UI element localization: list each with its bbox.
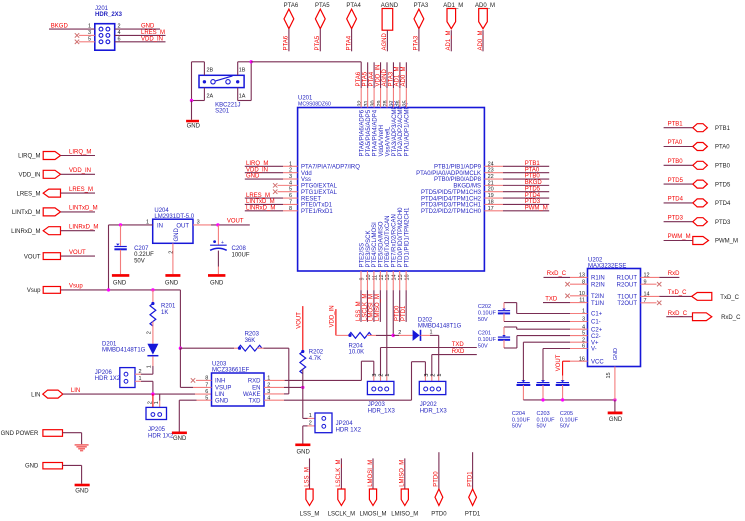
svg-text:2: 2 [430,374,436,377]
svg-text:PTE1/RxD1: PTE1/RxD1 [301,209,333,215]
svg-text:LIRQ_M: LIRQ_M [246,161,268,167]
svg-text:PTB0: PTB0 [525,174,541,180]
svg-text:PTD1: PTD1 [401,305,407,321]
svg-text:PTE5/SDA/MISO: PTE5/SDA/MISO [379,221,385,267]
svg-text:PTA5/PIA5/ADP5: PTA5/PIA5/ADP5 [366,109,372,156]
svg-text:BKGD/MS: BKGD/MS [453,184,481,190]
svg-text:HDR 1X2: HDR 1X2 [148,433,174,439]
svg-text:11: 11 [372,275,378,281]
svg-text:LRES_M: LRES_M [141,30,165,36]
svg-text:C203: C203 [537,411,550,417]
svg-text:LSS_M: LSS_M [300,512,320,518]
svg-text:PTB0: PTB0 [668,159,684,165]
svg-text:1: 1 [430,329,433,335]
svg-text:6: 6 [205,389,208,395]
svg-text:JP202: JP202 [420,402,438,408]
svg-text:GND: GND [173,436,187,442]
svg-text:PTD1: PTD1 [465,512,481,518]
svg-text:S201: S201 [215,108,230,114]
svg-text:C202: C202 [478,304,491,310]
svg-text:PTE6/TxD2/TxCAN: PTE6/TxD2/TxCAN [385,215,391,267]
svg-text:AGND: AGND [382,68,388,86]
svg-text:50V: 50V [134,258,145,264]
svg-text:PTA0: PTA0 [715,145,730,151]
svg-text:PTD5: PTD5 [668,178,684,184]
svg-text:R1IN: R1IN [591,276,605,282]
svg-text:25: 25 [403,100,409,106]
svg-text:VddA/VrefH: VddA/VrefH [379,125,385,156]
svg-text:LMOSI_M: LMOSI_M [369,294,375,321]
svg-text:0.10UF: 0.10UF [478,337,497,343]
svg-text:PTD0/PID0/TPM2CH0: PTD0/PID0/TPM2CH0 [398,207,404,268]
svg-text:TXD: TXD [249,398,262,404]
svg-text:GND: GND [613,348,619,360]
svg-text:VOUT: VOUT [69,250,86,256]
svg-text:27: 27 [390,100,396,106]
svg-text:D201: D201 [102,341,117,347]
svg-text:GND: GND [113,280,127,286]
svg-text:LMOSI_M: LMOSI_M [359,512,386,518]
svg-text:PWM_M: PWM_M [668,234,691,240]
svg-text:R1OUT: R1OUT [617,276,638,282]
svg-text:50V: 50V [537,423,547,429]
svg-text:C208: C208 [232,246,247,252]
svg-text:RxD_C: RxD_C [547,271,567,277]
svg-text:GND: GND [215,398,229,404]
svg-text:PTB1: PTB1 [715,126,731,132]
svg-text:VDD_IN: VDD_IN [246,167,268,173]
svg-text:2: 2 [378,374,384,377]
svg-text:2: 2 [139,369,142,375]
svg-text:LIN: LIN [31,393,40,399]
svg-text:RXD: RXD [248,379,261,385]
svg-text:MMBD4148T1G: MMBD4148T1G [102,348,146,354]
svg-text:100UF: 100UF [232,252,250,258]
svg-text:TxD_C: TxD_C [668,290,687,296]
svg-text:1A: 1A [239,94,246,100]
svg-text:BKGD: BKGD [525,180,543,186]
svg-text:PTA5: PTA5 [315,3,330,9]
svg-text:PTB0/PIB0/ADP8: PTB0/PIB0/ADP8 [434,177,482,183]
svg-text:LMISO_M: LMISO_M [375,294,381,321]
svg-text:30: 30 [370,100,376,106]
svg-text:PTD0: PTD0 [431,512,447,518]
svg-text:PTA0: PTA0 [668,140,683,146]
svg-text:2A: 2A [207,94,214,100]
svg-text:AGND: AGND [382,32,388,50]
svg-text:2: 2 [147,401,153,404]
svg-text:PTA6/PIA6/ADP6: PTA6/PIA6/ADP6 [360,109,366,156]
svg-text:GND: GND [246,174,260,180]
svg-text:VDD_IN: VDD_IN [141,36,163,42]
svg-text:PTD4: PTD4 [668,197,684,203]
svg-text:HDR 1X2: HDR 1X2 [95,376,121,382]
svg-text:PTA6: PTA6 [356,71,362,86]
svg-text:16: 16 [405,274,411,280]
svg-text:JP205: JP205 [148,427,166,433]
svg-text:PTA6: PTA6 [284,35,290,50]
svg-text:JP203: JP203 [368,402,386,408]
svg-text:R203: R203 [245,332,260,338]
svg-text:50V: 50V [560,423,570,429]
svg-text:PTD5: PTD5 [525,186,541,192]
svg-text:C1-: C1- [591,320,601,326]
svg-text:PTA3: PTA3 [388,71,394,86]
svg-text:PTD0: PTD0 [395,305,401,321]
svg-text:T2OUT: T2OUT [617,301,637,307]
svg-text:VOUT: VOUT [296,312,302,329]
svg-text:VDD_IN: VDD_IN [330,305,336,327]
svg-text:PTA5: PTA5 [362,71,368,86]
svg-text:0.22UF: 0.22UF [134,252,154,258]
svg-text:4: 4 [118,30,121,36]
svg-text:PTA0: PTA0 [525,167,540,173]
svg-text:GND: GND [75,488,89,494]
svg-text:C1+: C1+ [591,312,603,318]
svg-text:PTG0/EXTAL: PTG0/EXTAL [301,184,338,190]
svg-text:PTB1: PTB1 [668,121,684,127]
svg-text:LSCLK_M: LSCLK_M [328,512,355,518]
svg-text:R201: R201 [161,304,176,310]
svg-text:PTA2/ADP2/ACMP-: PTA2/ADP2/ACMP- [398,104,404,157]
svg-text:RxD_C: RxD_C [668,311,688,317]
svg-text:AD0_M: AD0_M [478,30,484,50]
svg-text:PTD5: PTD5 [715,182,731,188]
svg-text:GND: GND [165,280,179,286]
svg-text:1: 1 [309,413,312,419]
svg-text:RxD_C: RxD_C [721,315,741,321]
svg-text:PTA4: PTA4 [346,35,352,50]
svg-text:PTD0: PTD0 [434,471,440,487]
svg-text:PTD4/PID4/TPM1CH2: PTD4/PID4/TPM1CH2 [421,196,482,202]
svg-text:1: 1 [139,376,142,382]
svg-text:50V: 50V [478,344,488,350]
svg-text:IN: IN [157,224,163,230]
svg-text:PTD3: PTD3 [715,220,731,226]
svg-text:C2+: C2+ [591,327,603,333]
svg-text:10: 10 [366,274,372,280]
svg-text:VDD_IN: VDD_IN [375,64,381,86]
svg-text:1: 1 [437,374,443,377]
svg-text:2B: 2B [207,67,214,73]
svg-text:PTD1/PID1/TPM2CH1: PTD1/PID1/TPM2CH1 [404,207,410,268]
svg-text:1: 1 [147,365,153,368]
svg-text:GND: GND [174,228,180,242]
svg-text:C201: C201 [478,330,491,336]
svg-text:LIRQ_M: LIRQ_M [69,149,91,155]
svg-text:10.0K: 10.0K [349,350,365,356]
svg-text:VCC: VCC [591,359,604,365]
svg-text:LINTxD_M: LINTxD_M [12,210,41,216]
svg-text:GND: GND [25,464,39,470]
svg-text:VDD_IN: VDD_IN [69,168,91,174]
svg-text:1: 1 [154,401,160,404]
svg-text:LRES_M: LRES_M [16,191,40,197]
svg-text:RxD: RxD [668,271,680,277]
svg-text:LINRxD_M: LINRxD_M [246,205,275,211]
svg-text:T2IN: T2IN [591,294,604,300]
svg-text:PTD3: PTD3 [668,215,684,221]
svg-text:RESET: RESET [301,196,321,202]
svg-text:1K: 1K [161,310,168,316]
svg-text:D202: D202 [418,317,433,323]
svg-text:2: 2 [147,331,153,334]
svg-text:Vsup: Vsup [27,288,41,294]
svg-text:HDR_2X3: HDR_2X3 [95,12,123,18]
svg-text:15: 15 [398,274,404,280]
svg-text:PTD4: PTD4 [715,201,731,207]
svg-text:PTA4: PTA4 [369,71,375,86]
svg-text:26: 26 [396,100,402,106]
svg-text:AD1_M: AD1_M [446,30,452,50]
svg-text:1: 1 [88,24,91,30]
svg-text:HDR 1X2: HDR 1X2 [336,427,362,433]
svg-text:R2IN: R2IN [591,282,605,288]
svg-text:LRES_M: LRES_M [246,193,270,199]
svg-text:PTD3: PTD3 [525,199,541,205]
svg-text:PTA7/PIA7/ADP7/IRQ: PTA7/PIA7/ADP7/IRQ [301,165,360,171]
svg-text:PTE4/SCL/MOSI: PTE4/SCL/MOSI [372,222,378,268]
svg-text:RXD: RXD [452,349,465,355]
svg-text:GND: GND [210,280,224,286]
svg-text:Vdd: Vdd [301,171,312,177]
svg-text:PTE0/TxD1: PTE0/TxD1 [301,203,333,209]
svg-text:R202: R202 [309,349,324,355]
svg-text:LIN: LIN [215,392,224,398]
svg-text:36K: 36K [245,338,256,344]
svg-text:C207: C207 [134,246,149,252]
svg-text:TXD: TXD [452,342,465,348]
svg-text:PTE7/RxD2/RxCAN: PTE7/RxD2/RxCAN [392,214,398,267]
svg-text:T1OUT: T1OUT [617,295,637,301]
svg-text:VssA/VrefL: VssA/VrefL [385,126,391,156]
svg-text:TXD: TXD [545,297,558,303]
svg-text:U203: U203 [212,361,227,367]
svg-text:LINTxD_M: LINTxD_M [69,206,98,212]
svg-text:TxD_C: TxD_C [720,295,739,301]
svg-text:50V: 50V [478,317,488,323]
svg-text:PTE3/SPSCK: PTE3/SPSCK [366,230,372,267]
svg-text:R204: R204 [349,343,364,349]
svg-text:C204: C204 [512,411,525,417]
svg-text:14: 14 [392,274,398,280]
svg-text:PTA4/PIA4/ADP4: PTA4/PIA4/ADP4 [372,109,378,156]
svg-text:T1IN: T1IN [591,301,604,307]
svg-text:29: 29 [377,100,383,106]
svg-text:INH: INH [215,379,225,385]
svg-text:31: 31 [364,100,370,106]
svg-text:PTA4: PTA4 [346,3,361,9]
svg-text:3: 3 [372,374,378,377]
svg-text:MC9S08DZ60: MC9S08DZ60 [298,101,331,107]
svg-text:PTD3/PID3/TPM1CH1: PTD3/PID3/TPM1CH1 [421,203,482,209]
svg-text:BKGD: BKGD [51,24,69,30]
svg-text:VDD_IN: VDD_IN [18,173,40,179]
svg-text:GND: GND [297,449,311,455]
svg-text:LSCLK_M: LSCLK_M [336,459,342,486]
svg-text:AD1_M: AD1_M [395,66,401,86]
svg-text:AD0_M: AD0_M [401,66,407,86]
svg-text:1: 1 [385,374,391,377]
svg-text:1B: 1B [239,67,246,73]
svg-text:50V: 50V [512,423,522,429]
svg-text:PTE2/SS: PTE2/SS [359,243,365,268]
svg-text:LRES_M: LRES_M [69,187,93,193]
svg-text:PTD5/PID5/TPM1CH3: PTD5/PID5/TPM1CH3 [421,190,482,196]
svg-text:PWM_M: PWM_M [715,239,738,245]
svg-text:Vss: Vss [301,177,311,183]
svg-text:LIRQ_M: LIRQ_M [18,154,40,160]
svg-text:C2-: C2- [591,334,601,340]
svg-text:JP204: JP204 [336,421,354,427]
svg-text:VOUT: VOUT [24,254,41,260]
svg-text:LSS_M: LSS_M [356,301,362,321]
svg-text:LINRxD_M: LINRxD_M [11,229,40,235]
svg-text:2: 2 [118,24,121,30]
svg-text:LMISO_M: LMISO_M [391,512,418,518]
svg-text:HDR_1X3: HDR_1X3 [420,408,448,414]
svg-text:V-: V- [591,347,597,353]
svg-text:C205: C205 [560,411,573,417]
svg-text:VSUP: VSUP [215,386,231,392]
svg-text:PTB1: PTB1 [525,161,541,167]
svg-text:PTA6: PTA6 [284,3,299,9]
svg-text:PWM_M: PWM_M [525,205,548,211]
svg-text:13: 13 [385,274,391,280]
svg-text:PTD2/PID2/TPM1CH0: PTD2/PID2/TPM1CH0 [421,209,482,215]
svg-text:LSS_M: LSS_M [304,467,310,487]
svg-text:V+: V+ [591,340,599,346]
svg-text:PTA3: PTA3 [414,3,429,9]
svg-text:PTB0: PTB0 [715,164,731,170]
svg-text:2: 2 [309,421,312,427]
svg-text:GND: GND [141,24,155,30]
svg-text:32: 32 [357,100,363,106]
svg-text:PTA0/PIA0/ADP0/MCLK: PTA0/PIA0/ADP0/MCLK [416,171,481,177]
svg-text:LINTxD_M: LINTxD_M [246,199,275,205]
svg-text:VOUT: VOUT [556,354,562,371]
svg-text:GND POWER: GND POWER [1,431,39,437]
svg-text:LSCLK_M: LSCLK_M [362,294,368,321]
svg-text:LMOSI_M: LMOSI_M [368,460,374,487]
svg-text:EN: EN [252,386,260,392]
svg-text:PTD4: PTD4 [525,193,541,199]
svg-text:4.7K: 4.7K [309,356,321,362]
svg-text:9: 9 [359,277,365,280]
svg-text:VOUT: VOUT [227,219,244,225]
svg-text:PTA1/ADP1/ACMP+: PTA1/ADP1/ACMP+ [405,102,411,157]
svg-text:2: 2 [398,330,401,336]
svg-text:WAKE: WAKE [243,392,260,398]
svg-text:Vsup: Vsup [69,284,83,290]
svg-text:LMISO_M: LMISO_M [400,460,406,487]
svg-text:12: 12 [379,274,385,280]
svg-text:28: 28 [383,100,389,106]
svg-text:PTA3: PTA3 [414,35,420,50]
svg-text:HDR_1X3: HDR_1X3 [368,408,396,414]
svg-text:R2OUT: R2OUT [617,282,638,288]
svg-text:GND: GND [609,417,623,423]
svg-text:6: 6 [118,36,121,42]
svg-text:PTG1/EXTAL: PTG1/EXTAL [301,190,338,196]
svg-text:0.10UF: 0.10UF [478,311,497,317]
svg-text:LIN: LIN [71,388,80,394]
svg-text:MMBD4148T1G: MMBD4148T1G [418,324,462,330]
svg-text:PTD1: PTD1 [467,471,473,487]
svg-text:GND: GND [187,123,201,129]
svg-text:PTA5: PTA5 [315,35,321,50]
svg-text:PTA3/ADP3/ACMPO: PTA3/ADP3/ACMPO [392,101,398,157]
svg-text:LINRxD_M: LINRxD_M [69,225,98,231]
svg-text:15: 15 [606,372,612,378]
svg-text:3: 3 [424,374,430,377]
svg-text:PTB1/PIB1/ADP9: PTB1/PIB1/ADP9 [434,165,482,171]
